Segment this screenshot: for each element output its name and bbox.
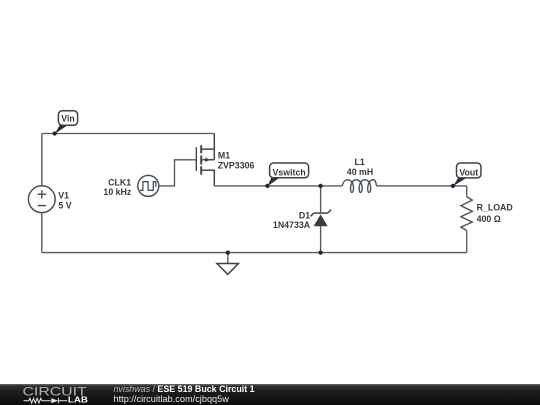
svg-text:LAB: LAB — [68, 395, 88, 404]
svg-text:400 Ω: 400 Ω — [477, 214, 501, 224]
svg-text:Vout: Vout — [459, 167, 478, 177]
svg-text:Vswitch: Vswitch — [272, 167, 305, 177]
svg-text:5 V: 5 V — [58, 201, 71, 211]
svg-text:M1: M1 — [218, 151, 230, 161]
svg-text:Vin: Vin — [61, 114, 75, 124]
svg-text:40 mH: 40 mH — [347, 167, 373, 177]
svg-text:1N4733A: 1N4733A — [273, 220, 311, 230]
svg-text:10 kHz: 10 kHz — [103, 187, 131, 197]
svg-text:L1: L1 — [355, 157, 365, 167]
svg-text:R_LOAD: R_LOAD — [477, 203, 513, 213]
svg-text:V1: V1 — [58, 190, 69, 200]
svg-text:ZVP3306: ZVP3306 — [218, 161, 255, 171]
svg-text:CLK1: CLK1 — [108, 177, 131, 187]
